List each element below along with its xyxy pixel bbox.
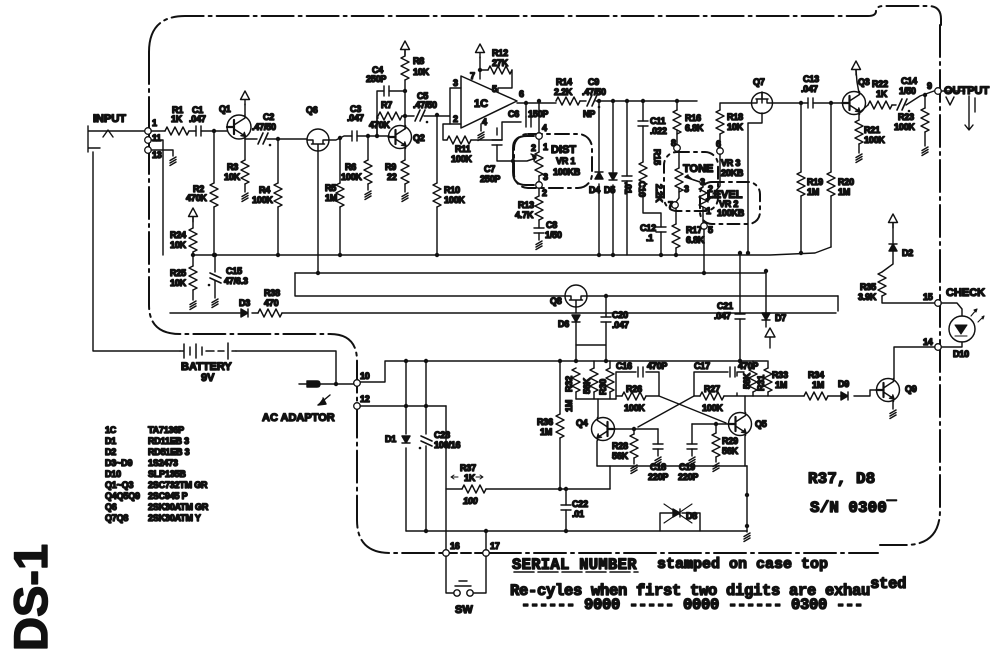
svg-text:RD51EB 3: RD51EB 3 xyxy=(148,447,190,457)
case border bottom xyxy=(489,552,878,554)
wire C15 xyxy=(214,255,216,298)
wire Q7 drain to C13 xyxy=(762,92,808,103)
wire R24 xyxy=(192,217,194,228)
power arrow D2 xyxy=(889,214,898,228)
wire pin6 output xyxy=(517,102,556,104)
wire R37 right to flipflop xyxy=(486,488,610,490)
battery B1 xyxy=(180,343,236,359)
svg-text:R34: R34 xyxy=(808,370,824,380)
capacitor C19 xyxy=(687,444,697,449)
capacitor C20 xyxy=(601,317,611,322)
ground bottom right xyxy=(746,531,748,532)
junction dot R20 xyxy=(829,101,833,105)
wire node15 to led xyxy=(941,303,962,316)
main mid bus C xyxy=(295,273,838,296)
emitter rail xyxy=(597,465,747,467)
svg-text:R23: R23 xyxy=(898,112,914,122)
svg-text:R17: R17 xyxy=(686,225,702,235)
svg-text:D6: D6 xyxy=(558,319,569,329)
resistor R36 xyxy=(556,414,564,438)
svg-text:------ 9000 ----- 0000 ------: ------ 9000 ----- 0000 ------ 0300 --- xyxy=(521,596,863,614)
svg-text:DIST: DIST xyxy=(551,144,576,156)
power arrow R12 xyxy=(476,44,485,58)
svg-text:3.9K: 3.9K xyxy=(858,292,877,302)
wire feedback left vertical xyxy=(377,91,384,136)
wire pin7 up xyxy=(479,70,481,79)
svg-text:17: 17 xyxy=(490,541,500,551)
wire node6 down to VR2 wiper xyxy=(713,154,720,194)
svg-text:1S2473: 1S2473 xyxy=(148,458,178,468)
resistor R5 xyxy=(336,183,344,207)
svg-text:Q7Q8: Q7Q8 xyxy=(105,513,128,523)
svg-text:100K: 100K xyxy=(451,154,472,164)
svg-text:R30: R30 xyxy=(598,379,608,395)
diode D3 xyxy=(241,309,248,317)
svg-text:47/6.3: 47/6.3 xyxy=(224,276,248,286)
wire C22 xyxy=(565,489,567,531)
svg-text:DS-1: DS-1 xyxy=(4,544,57,651)
svg-text:1C: 1C xyxy=(105,425,117,435)
node 6 VR3 xyxy=(717,148,724,155)
svg-text:4: 4 xyxy=(482,117,487,127)
diode D1 xyxy=(402,436,410,443)
wire D9 to R34 xyxy=(828,395,841,397)
svg-text:16: 16 xyxy=(450,541,460,551)
svg-text:D7: D7 xyxy=(775,313,786,323)
resistor R9 xyxy=(401,160,409,184)
capacitor C17 xyxy=(730,367,735,377)
wire R35 to node 15 xyxy=(882,296,935,303)
wire R24 to R25 xyxy=(192,252,194,266)
resistor R12 xyxy=(488,66,512,74)
svg-text:1: 1 xyxy=(543,142,548,152)
wire Q6 to C3 xyxy=(329,136,352,140)
junction dots bus A diodes xyxy=(597,253,601,257)
svg-text:INPUT: INPUT xyxy=(93,113,126,125)
svg-text:.47/50: .47/50 xyxy=(252,122,276,132)
resistor R29 xyxy=(712,433,720,457)
svg-text:9: 9 xyxy=(927,81,932,91)
wire C10 branch xyxy=(626,101,628,255)
resistor R11 xyxy=(447,136,471,144)
svg-text:R9: R9 xyxy=(385,162,396,172)
wire D1 branch xyxy=(405,361,407,531)
power arrow R24 xyxy=(189,208,198,222)
svg-text:R12: R12 xyxy=(492,48,508,58)
svg-text:R3: R3 xyxy=(227,162,238,172)
svg-text:100K: 100K xyxy=(864,135,885,145)
wire R11 left to pin2 net xyxy=(443,124,502,140)
wire R5 bottom to bus A xyxy=(339,207,341,255)
resistor R19 xyxy=(797,172,805,196)
svg-text:R11: R11 xyxy=(455,144,471,154)
svg-text:250P: 250P xyxy=(366,74,386,84)
transistor Q8 jfet xyxy=(565,285,587,307)
main mid bus A xyxy=(195,247,831,255)
resistor R8 xyxy=(401,56,409,80)
wire node17 up xyxy=(485,531,487,550)
resistor R17 xyxy=(672,224,680,248)
svg-text:.01: .01 xyxy=(623,182,633,194)
capacitor C3 xyxy=(352,131,357,141)
junction dot C12 bus xyxy=(659,253,663,257)
svg-text:R6: R6 xyxy=(345,162,356,172)
wire R17 to bus A xyxy=(675,248,677,255)
ground R9 xyxy=(404,184,406,192)
svg-text:Q6: Q6 xyxy=(306,105,318,115)
resistor R30a 56K xyxy=(590,368,598,392)
resistor R27 xyxy=(700,392,724,400)
junction dots collector xyxy=(403,114,407,118)
svg-text:Q4: Q4 xyxy=(576,418,588,428)
svg-text:10K: 10K xyxy=(224,172,241,182)
transistor Q1 xyxy=(227,115,251,139)
svg-text:150P: 150P xyxy=(528,109,548,119)
capacitor C5 electrolytic xyxy=(415,110,428,123)
svg-text:2SK30ATM Y: 2SK30ATM Y xyxy=(148,513,201,523)
wire R7 right to collector xyxy=(377,116,405,136)
node 16 xyxy=(443,550,450,557)
wire R7 left vertical xyxy=(377,117,378,119)
svg-text:4.7K: 4.7K xyxy=(515,210,534,220)
resistor R30 xyxy=(606,368,614,392)
svg-text:250P: 250P xyxy=(480,174,500,184)
svg-text:.047: .047 xyxy=(612,320,629,330)
transistor Q4 mirrored xyxy=(592,418,615,441)
wire D6 to rail xyxy=(575,322,577,361)
svg-text:1: 1 xyxy=(152,118,157,128)
svg-text:Q1~Q3: Q1~Q3 xyxy=(105,480,133,490)
pot VR1 element xyxy=(535,152,543,176)
junction dot C6 xyxy=(524,101,528,105)
svg-text:C17: C17 xyxy=(694,361,710,371)
svg-text:13: 13 xyxy=(152,150,162,160)
svg-text:7: 7 xyxy=(470,71,475,81)
wire Q4 base xyxy=(615,428,658,430)
diode D2 zener xyxy=(889,244,897,251)
ground pin4 xyxy=(480,124,482,131)
svg-text:TA7136P: TA7136P xyxy=(148,425,184,435)
svg-text:SW: SW xyxy=(455,604,473,616)
svg-text:10K: 10K xyxy=(413,67,430,77)
junction dot wiper xyxy=(511,159,515,163)
svg-text:C15: C15 xyxy=(226,266,242,276)
wire C20 xyxy=(576,296,606,361)
capacitor C11 xyxy=(638,121,648,126)
ground R28 xyxy=(633,458,635,464)
svg-text:R31: R31 xyxy=(756,375,766,391)
wire rail to R37 xyxy=(609,466,611,489)
svg-text:100K: 100K xyxy=(252,195,273,205)
svg-text:14: 14 xyxy=(923,337,933,347)
wire node12 right xyxy=(360,405,446,407)
svg-text:C12: C12 xyxy=(640,223,656,233)
svg-text:1M: 1M xyxy=(564,400,574,412)
svg-text:4: 4 xyxy=(542,123,547,133)
wire VR1 bottom to R13 xyxy=(538,188,540,196)
svg-text:2.2K: 2.2K xyxy=(554,87,573,97)
svg-text:56K: 56K xyxy=(722,446,739,456)
svg-text:SLP135B: SLP135B xyxy=(148,469,186,479)
wire Q7 source down to C21 net xyxy=(748,113,762,253)
wire rail down to ground net xyxy=(746,466,748,531)
capacitor C10 xyxy=(622,176,632,181)
svg-text:D1: D1 xyxy=(105,436,116,446)
transistor Q6 jfet xyxy=(307,129,329,151)
svg-text:1M: 1M xyxy=(807,187,819,197)
power arrow R8 xyxy=(401,41,410,55)
svg-text:5: 5 xyxy=(492,84,497,94)
power arrow D7 xyxy=(765,328,775,348)
wire R4 bottom to bus A xyxy=(277,207,279,255)
wire Q3 collector to power xyxy=(856,70,859,93)
switch SW xyxy=(446,556,486,593)
diode D7 xyxy=(762,313,770,320)
svg-text:100K: 100K xyxy=(341,172,362,182)
diode D8 crossed xyxy=(660,513,700,531)
resistor R6 xyxy=(364,160,372,184)
svg-text:R38: R38 xyxy=(264,288,280,298)
wire C23 branch xyxy=(425,361,427,531)
wire R14 to C9 xyxy=(580,100,586,102)
flipflop right cell xyxy=(694,372,753,396)
resistor R24 xyxy=(189,228,197,252)
pot VR1 DIST box xyxy=(514,134,592,188)
svg-text:1M: 1M xyxy=(775,380,787,390)
power arrow Q1 collector xyxy=(241,91,250,105)
svg-text:C23: C23 xyxy=(434,430,450,440)
transistor Q2 xyxy=(389,126,412,149)
svg-text:R37, D8: R37, D8 xyxy=(808,470,875,488)
svg-text:R32: R32 xyxy=(564,376,574,392)
wire plug to node 10 xyxy=(320,383,354,385)
ac adaptor plug xyxy=(299,381,320,387)
ground R25 xyxy=(192,290,194,300)
junction dot C20 top xyxy=(604,294,608,298)
wire Q5 base xyxy=(692,423,728,425)
svg-text:C14: C14 xyxy=(901,76,917,86)
svg-text:.01: .01 xyxy=(572,509,584,519)
pot VR3 TONE box xyxy=(664,152,718,211)
wire node1 to R1 xyxy=(151,130,165,132)
svg-text:R13: R13 xyxy=(518,200,534,210)
svg-text:10K: 10K xyxy=(170,240,187,250)
ground C15 xyxy=(212,299,218,308)
wire battery negative to input sleeve xyxy=(93,152,180,351)
svg-text:R20: R20 xyxy=(838,177,854,187)
svg-text:1M: 1M xyxy=(325,193,337,203)
ground Q9 xyxy=(892,401,894,409)
wire node12 bus to node16 xyxy=(445,406,447,553)
node 12 xyxy=(354,403,361,410)
pot VR1 wiper loop xyxy=(513,136,534,185)
svg-text:7: 7 xyxy=(668,200,673,210)
cross couple wires xyxy=(638,396,726,427)
node 13 xyxy=(145,147,152,154)
case border top xyxy=(149,6,941,52)
svg-text:2SC732TM GR: 2SC732TM GR xyxy=(148,480,208,490)
wire C21 to rail xyxy=(739,253,741,361)
wire R19 branch xyxy=(800,103,802,252)
wire R2 top xyxy=(213,131,215,183)
capacitor C16 xyxy=(638,367,643,377)
node 8 TONE xyxy=(674,145,681,152)
output jack xyxy=(941,91,975,130)
svg-text:.1: .1 xyxy=(646,233,653,243)
svg-text:R14: R14 xyxy=(556,77,572,87)
svg-text:C13: C13 xyxy=(803,74,819,84)
resistor R13 xyxy=(535,196,543,220)
capacitor C4 xyxy=(384,86,389,96)
resistor R23 xyxy=(921,108,929,132)
svg-text:D5: D5 xyxy=(604,185,615,195)
svg-text:TONE: TONE xyxy=(683,163,713,175)
resistor R32 xyxy=(572,368,580,392)
svg-text:.047: .047 xyxy=(801,84,818,94)
wire Q2 collector to C5 xyxy=(405,115,414,117)
svg-text:220P: 220P xyxy=(648,472,668,482)
diode D5 xyxy=(609,173,617,180)
svg-text:R22: R22 xyxy=(872,79,888,89)
svg-text:2: 2 xyxy=(542,188,547,198)
junction dot Q5 base xyxy=(714,422,718,426)
ground R3 xyxy=(244,184,246,192)
wire VR1 top to signal xyxy=(538,101,540,133)
node2 VR1 bottom xyxy=(536,182,543,189)
wire D7 xyxy=(765,271,767,327)
wire Q5 emitter down xyxy=(744,436,746,466)
node 11 xyxy=(145,137,152,144)
resistor R2 xyxy=(210,183,218,207)
resistor R18 xyxy=(716,110,724,134)
svg-text:R18: R18 xyxy=(727,112,743,122)
junction dots bottom bus xyxy=(424,529,428,533)
wire R34 to R33 node xyxy=(753,395,804,397)
resistor R20 xyxy=(827,172,835,196)
wire R20 branch xyxy=(830,103,832,247)
wire pin6 to R14 xyxy=(555,100,557,102)
svg-text:27K: 27K xyxy=(492,58,509,68)
svg-text:100K: 100K xyxy=(444,195,465,205)
svg-text:.047: .047 xyxy=(347,113,364,123)
ground R23 xyxy=(924,132,926,146)
svg-text:100: 100 xyxy=(463,496,478,506)
capacitor C18 xyxy=(653,444,663,449)
wire R23 branch xyxy=(924,95,926,108)
svg-text:R33: R33 xyxy=(772,370,788,380)
svg-text:C19: C19 xyxy=(679,462,695,472)
junction dot Q4 base xyxy=(632,427,636,431)
transistor Q5 xyxy=(729,413,752,436)
junction dot pin7 xyxy=(478,68,482,72)
resistor R22 xyxy=(868,101,892,109)
svg-text:VR 1: VR 1 xyxy=(556,156,575,166)
svg-text:3: 3 xyxy=(700,177,705,187)
svg-text:Q5: Q5 xyxy=(755,419,767,429)
diode D9 xyxy=(841,392,848,400)
junction dot bus A left xyxy=(191,253,195,257)
capacitor C12 xyxy=(656,227,666,232)
svg-text:56K: 56K xyxy=(582,377,592,394)
svg-text:2: 2 xyxy=(531,143,536,153)
node4 VR1 xyxy=(536,133,543,140)
wire C6 feedback xyxy=(525,103,527,117)
wire node13 stub to ground xyxy=(151,150,173,156)
wire R4 top xyxy=(277,139,279,183)
svg-text:.047: .047 xyxy=(189,114,206,124)
wire VR2 bottom to bus B xyxy=(703,229,705,273)
resistor R21 xyxy=(855,120,863,144)
svg-text:1/50: 1/50 xyxy=(899,86,916,96)
wire R10 top xyxy=(436,115,438,183)
pot VR2 element xyxy=(702,182,704,222)
resistor R16 xyxy=(673,110,681,134)
pot VR2 wiper xyxy=(706,196,713,202)
svg-text:R7: R7 xyxy=(381,100,392,110)
wire C14 to node 9 xyxy=(906,91,934,105)
svg-text:1M: 1M xyxy=(812,380,824,390)
svg-text:2: 2 xyxy=(708,184,713,194)
svg-text:R36: R36 xyxy=(537,417,553,427)
svg-text:1C: 1C xyxy=(474,98,488,110)
wire D3 R38 row xyxy=(170,312,836,314)
node 15 xyxy=(935,300,942,307)
wire R2 bottom to bus A xyxy=(213,207,215,255)
resistor R15 xyxy=(639,162,647,186)
svg-text:1M: 1M xyxy=(540,427,552,437)
capacitor C13 xyxy=(808,98,813,108)
svg-text:12: 12 xyxy=(360,394,370,404)
wire Q6 gate to bus B xyxy=(317,151,319,273)
resistor R31 xyxy=(749,368,757,392)
wire D4 branch xyxy=(598,101,600,255)
wire R10 bottom to bus A xyxy=(436,207,438,255)
svg-text:C8: C8 xyxy=(546,220,557,230)
svg-text:R16: R16 xyxy=(685,113,701,123)
capacitor C14 electrolytic xyxy=(897,99,910,112)
svg-text:100KB: 100KB xyxy=(717,208,745,218)
svg-text:RD11EB 3: RD11EB 3 xyxy=(148,436,189,446)
svg-text:D1: D1 xyxy=(385,434,396,444)
resistor R35 xyxy=(878,272,886,296)
svg-text:10: 10 xyxy=(360,371,370,381)
capacitor C2 electrolytic xyxy=(258,133,271,146)
resistor R1 xyxy=(165,127,189,135)
capacitor C22 xyxy=(561,505,571,510)
wire C4 right to R8 node xyxy=(389,90,405,92)
svg-text:6: 6 xyxy=(519,89,524,99)
svg-text:D10: D10 xyxy=(105,469,121,479)
junction dot R19 xyxy=(799,101,803,105)
wire battery positive to node 10 xyxy=(236,351,336,384)
svg-text:D3: D3 xyxy=(239,298,250,308)
node 14 xyxy=(935,344,942,351)
svg-text:20KB: 20KB xyxy=(721,168,744,178)
svg-text:R35: R35 xyxy=(860,282,876,292)
svg-text:CHECK: CHECK xyxy=(946,287,985,299)
transistor Q9 xyxy=(877,379,900,402)
wire Q1 emitter node to C2 xyxy=(245,138,257,140)
svg-text:15: 15 xyxy=(923,292,933,302)
svg-text:100/16: 100/16 xyxy=(434,440,461,450)
svg-text:Q3: Q3 xyxy=(858,77,870,87)
wire Q3 emitter to R22 xyxy=(859,105,868,113)
wire Q2 emitter to R9 xyxy=(404,148,406,160)
wire C1 to Q1 base xyxy=(201,130,227,132)
svg-text:1K: 1K xyxy=(464,473,476,483)
svg-text:6.8K: 6.8K xyxy=(685,123,704,133)
resistor R28 xyxy=(630,434,638,458)
